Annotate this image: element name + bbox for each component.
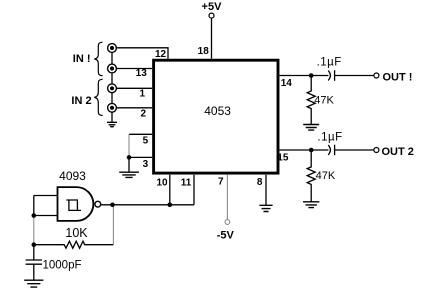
svg-text:IN !: IN ! (73, 53, 91, 65)
svg-text:10K: 10K (65, 226, 88, 240)
svg-text:2: 2 (140, 109, 146, 120)
svg-text:8: 8 (257, 177, 263, 188)
svg-text:7: 7 (218, 177, 224, 188)
svg-text:3: 3 (143, 159, 149, 170)
svg-text:OUT 2: OUT 2 (382, 146, 414, 158)
svg-text:.1µF: .1µF (317, 56, 342, 68)
svg-text:5: 5 (143, 136, 149, 147)
svg-text:OUT !: OUT ! (383, 72, 413, 84)
svg-text:11: 11 (181, 177, 192, 188)
svg-text:47K: 47K (316, 170, 336, 182)
svg-text:47K: 47K (314, 94, 334, 106)
svg-text:18: 18 (198, 46, 210, 57)
svg-text:.1µF: .1µF (317, 132, 342, 144)
svg-text:+5V: +5V (202, 1, 223, 13)
svg-text:10: 10 (156, 177, 168, 188)
svg-text:15: 15 (277, 153, 289, 164)
svg-text:13: 13 (136, 68, 148, 79)
svg-text:-5V: -5V (217, 230, 235, 242)
svg-text:1000pF: 1000pF (43, 259, 82, 271)
svg-text:1: 1 (139, 89, 145, 100)
svg-text:4053: 4053 (204, 104, 231, 118)
svg-text:14: 14 (281, 78, 293, 89)
svg-text:IN 2: IN 2 (71, 95, 91, 107)
svg-text:12: 12 (155, 49, 167, 60)
svg-text:4093: 4093 (59, 169, 86, 183)
